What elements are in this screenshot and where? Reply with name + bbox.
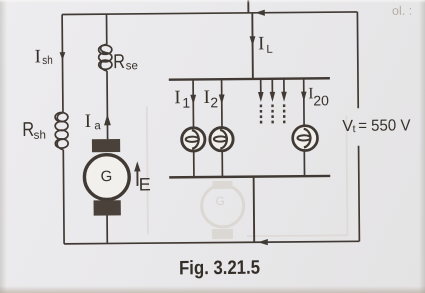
svg-text:= 550 V: = 550 V (358, 117, 411, 134)
lamp branch 20 wire (303, 78, 306, 176)
arrow IL (down) (250, 36, 256, 46)
wire left (lower) (62, 150, 65, 244)
arrow I2 (219, 94, 225, 104)
lamp bottom bus (169, 176, 330, 177)
armature branch wire (lower) (106, 71, 109, 139)
wire top (62, 12, 357, 15)
dashed arrow c (281, 79, 287, 124)
svg-text:20: 20 (313, 92, 329, 108)
wire bottom (64, 241, 359, 244)
svg-text:a: a (94, 120, 101, 132)
lamp L1 (182, 128, 205, 151)
svg-text:se: se (126, 60, 138, 72)
svg-text:2: 2 (210, 94, 218, 110)
resistor Rsh coil (55, 112, 68, 149)
svg-text:sh: sh (42, 55, 53, 67)
svg-text:R: R (22, 119, 34, 141)
arrow bottom wire (left) (258, 239, 268, 245)
arrow E (emf, up) (136, 171, 138, 186)
svg-text:I: I (85, 111, 92, 132)
svg-text:1: 1 (182, 95, 190, 111)
svg-text:I: I (174, 87, 181, 108)
lamp branch 1 wire (192, 79, 195, 177)
wire IL vertical (251, 13, 254, 79)
lamp L2 (210, 128, 233, 151)
svg-text:ol. :: ol. : (392, 4, 412, 18)
svg-text:L: L (266, 44, 273, 56)
svg-text:I: I (258, 33, 265, 54)
generator G: body circle (84, 155, 129, 200)
dashed arrow a (258, 79, 264, 124)
svg-text:Fig. 3.21.5: Fig. 3.21.5 (179, 257, 260, 280)
generator G: top brush (92, 139, 120, 152)
svg-text:I: I (203, 87, 210, 108)
svg-text:G: G (216, 194, 225, 208)
generator bottom wire (106, 215, 108, 243)
ghost bleed-through figure (147, 105, 348, 240)
arrow Ish (on left wire, down) (60, 52, 66, 60)
wire stub above top (247, 0, 249, 13)
wire right (lower) (358, 146, 361, 242)
wire right (upper) (356, 12, 359, 108)
drain wire from bottom bus (253, 177, 256, 243)
lamp branch 2 wire (221, 79, 224, 177)
lamp L20 (293, 126, 318, 151)
arrow I20 (301, 92, 307, 102)
svg-text:E: E (139, 174, 151, 194)
wire left (upper) (61, 14, 64, 112)
arrow top wire (left) (255, 10, 264, 16)
lamp top bus (169, 78, 330, 79)
generator G: bottom brush (94, 200, 121, 215)
armature branch wire (upper) (106, 14, 108, 44)
arrow I1 (190, 95, 196, 105)
inductor Rse coil (99, 44, 112, 71)
dashed arrow b (269, 79, 275, 124)
svg-text:sh: sh (34, 130, 46, 142)
svg-text:G: G (101, 168, 113, 185)
svg-text:R: R (113, 51, 125, 73)
arrow Ia (up, on wire) (104, 114, 111, 125)
svg-text:I: I (34, 46, 41, 67)
svg-text:t: t (353, 123, 356, 135)
